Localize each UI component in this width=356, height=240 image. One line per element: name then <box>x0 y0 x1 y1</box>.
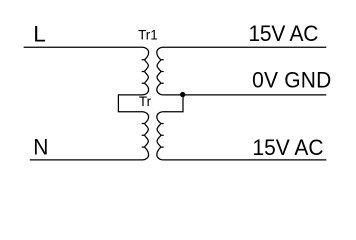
junction dot <box>180 92 185 97</box>
svg-text:15V AC: 15V AC <box>249 21 319 46</box>
wire junction to Tr secondary top <box>162 95 183 112</box>
svg-text:N: N <box>33 135 48 160</box>
wire primary series link (left U) <box>118 95 143 112</box>
wire Tr secondary to 15V AC bottom <box>162 159 326 161</box>
transformer Tr primary winding <box>142 112 149 160</box>
svg-text:Tr: Tr <box>139 94 152 109</box>
wire Tr1 secondary to 15V AC top <box>162 46 326 48</box>
wire N to Tr primary <box>30 159 143 161</box>
svg-text:Tr1: Tr1 <box>138 28 158 43</box>
svg-text:L: L <box>33 22 46 47</box>
wire center tap to 0V GND <box>162 94 326 96</box>
transformer Tr1 secondary winding <box>157 47 164 95</box>
transformer Tr secondary winding <box>157 112 164 160</box>
wire L to Tr1 primary <box>24 46 143 48</box>
svg-text:15V AC: 15V AC <box>252 136 323 161</box>
transformer Tr1 primary winding <box>142 47 149 95</box>
svg-text:0V GND: 0V GND <box>252 68 331 93</box>
